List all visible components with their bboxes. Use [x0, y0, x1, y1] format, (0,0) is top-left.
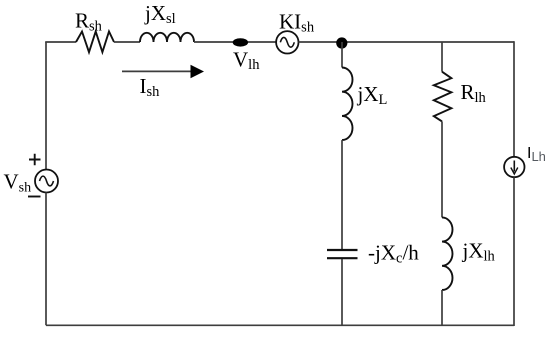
- wire between jX_sl and V_lh node: [194, 41, 233, 43]
- resistor R_lh: [434, 72, 452, 122]
- wire right rail upper: [513, 41, 515, 157]
- wire top-left segment: [45, 41, 76, 43]
- wire left vertical bottom segment: [45, 193, 47, 326]
- plus sign of V_sh: [29, 154, 41, 165]
- source V_sh (AC source circle): [35, 170, 58, 193]
- node V_lh (filled ellipse): [233, 38, 248, 46]
- wire bottom rail: [46, 324, 514, 326]
- current arrow I_sh: [122, 65, 204, 78]
- svg-text:jXL: jXL: [357, 82, 388, 108]
- source KI_sh (AC source circle): [276, 31, 298, 53]
- svg-text:Vsh: Vsh: [4, 170, 32, 196]
- current source I_Lh: [504, 157, 524, 177]
- svg-text:KIsh: KIsh: [279, 10, 315, 36]
- wire right rail lower: [513, 178, 515, 327]
- wire middle branch lower: [341, 259, 343, 325]
- wire right branch lower: [441, 290, 443, 325]
- wire left vertical top segment: [45, 42, 47, 170]
- capacitor -jXc/h: [327, 250, 358, 258]
- wire middle branch upper: [341, 42, 343, 68]
- wire between jX_L and capacitor: [341, 140, 343, 249]
- minus sign of V_sh: [28, 196, 41, 198]
- junction node dot: [336, 37, 347, 48]
- svg-text:-jXc/h: -jXc/h: [368, 241, 419, 267]
- svg-text:ILh: ILh: [527, 145, 546, 164]
- svg-text:jXlh: jXlh: [462, 239, 496, 265]
- wire from KI_sh to junction and to right rail: [299, 41, 515, 43]
- svg-text:Vlh: Vlh: [233, 48, 260, 74]
- inductor jX_lh: [442, 217, 453, 290]
- svg-text:Rsh: Rsh: [75, 9, 103, 35]
- svg-text:Ish: Ish: [140, 74, 161, 100]
- wire between R_sh and jX_sl: [114, 41, 140, 43]
- inductor jX_sl: [140, 33, 194, 42]
- svg-text:jXsl: jXsl: [144, 1, 176, 27]
- wire between V_lh node and KI_sh source: [248, 41, 276, 43]
- wire right branch upper: [441, 42, 443, 72]
- wire between R_lh and jX_lh: [441, 121, 443, 217]
- inductor jX_L: [342, 68, 353, 141]
- resistor R_sh: [76, 32, 114, 53]
- svg-text:Rlh: Rlh: [461, 80, 487, 106]
